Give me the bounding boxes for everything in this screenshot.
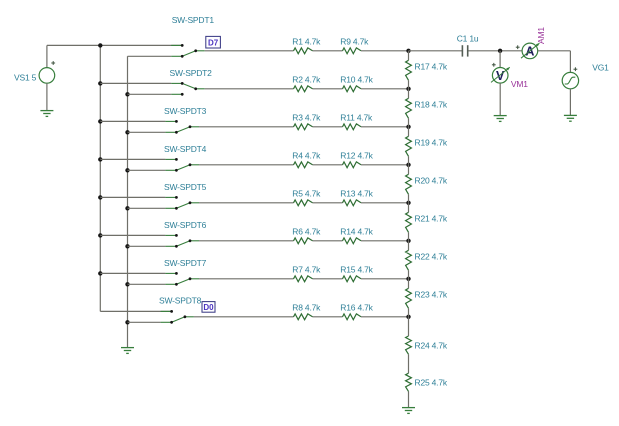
svg-text:SW-SPDT7: SW-SPDT7 xyxy=(164,258,207,268)
wire: ladder top node to C1 xyxy=(409,50,463,52)
digital state box D0 xyxy=(202,302,215,313)
wire: rail2 to SW-SPDT1 bottom throw xyxy=(128,55,172,57)
switch SW-SPDT5 xyxy=(165,196,199,210)
wire: ladder segment below R20 xyxy=(408,194,410,203)
resistor R12 xyxy=(343,162,362,168)
svg-text:D0: D0 xyxy=(203,303,214,312)
digital state box D7 xyxy=(206,36,221,48)
wire: R16 to summing ladder xyxy=(361,316,409,318)
wire: rail2 to SW-SPDT2 bottom throw xyxy=(128,93,172,95)
wire: R3 to R11 xyxy=(313,126,343,128)
node: rail1 junction row 1 xyxy=(98,43,102,47)
wire: R4 to R12 xyxy=(313,164,343,166)
wire: SW-SPDT3 pole to R3 xyxy=(199,126,294,128)
svg-text:AM1: AM1 xyxy=(536,27,546,44)
wire: ladder segment above R18 xyxy=(408,89,410,99)
svg-text:SW-SPDT2: SW-SPDT2 xyxy=(170,68,213,78)
wire: ladder segment below R22 xyxy=(408,270,410,279)
resistor R8 xyxy=(294,314,313,320)
svg-text:SW-SPDT3: SW-SPDT3 xyxy=(164,106,207,116)
wire: SW-SPDT2 pole to R2 xyxy=(205,88,294,90)
resistor R17 xyxy=(406,60,412,80)
wire: R6 to R14 xyxy=(313,240,343,242)
svg-text:R11 4.7k: R11 4.7k xyxy=(340,113,373,123)
wire: rail1 to SW-SPDT2 top throw xyxy=(100,82,171,84)
wire: SW-SPDT7 pole to R7 xyxy=(199,278,294,280)
resistor R7 xyxy=(294,276,313,282)
svg-text:R4 4.7k: R4 4.7k xyxy=(292,151,321,161)
wire: rail 2 (ground bus vertical) xyxy=(127,56,129,347)
node: rail1 junction row 2 xyxy=(98,81,102,85)
wire: ladder segment between R24 and R25 xyxy=(408,354,410,373)
resistor R4 xyxy=(294,162,313,168)
svg-text:SW-SPDT6: SW-SPDT6 xyxy=(164,220,207,230)
resistor R5 xyxy=(294,200,313,206)
node: rail2 junction row 4 xyxy=(125,168,129,172)
wire: rail1 to SW-SPDT7 top throw xyxy=(100,272,165,274)
svg-text:R2 4.7k: R2 4.7k xyxy=(292,75,321,85)
svg-text:R3 4.7k: R3 4.7k xyxy=(292,113,321,123)
VS1 plus polarity mark xyxy=(51,61,55,65)
ammeter AM1 xyxy=(521,43,539,59)
svg-text:C1 1u: C1 1u xyxy=(457,34,479,44)
node: rail1 junction row 6 xyxy=(98,233,102,237)
svg-text:R7 4.7k: R7 4.7k xyxy=(292,265,321,275)
resistor R22 xyxy=(406,250,412,270)
wire: top bus from VS1 to SW-SPDT1 top throw xyxy=(47,44,182,46)
node: ladder junction row 2 xyxy=(406,87,410,91)
resistor R9 xyxy=(343,48,362,54)
wire: ladder segment below R18 xyxy=(408,118,410,127)
svg-text:R20 4.7k: R20 4.7k xyxy=(415,176,448,186)
resistor R23 xyxy=(406,288,412,308)
wire: rail1 to SW-SPDT6 top throw xyxy=(100,234,165,236)
wire: R5 to R13 xyxy=(313,202,343,204)
wire: SW-SPDT4 pole to R4 xyxy=(199,164,294,166)
node: rail2 junction row 3 xyxy=(125,130,129,134)
voltage source VS1 xyxy=(39,68,55,84)
node: ladder junction row 3 xyxy=(406,125,410,129)
svg-text:R21 4.7k: R21 4.7k xyxy=(415,214,448,224)
switch SW-SPDT7 xyxy=(165,272,199,286)
wire: ladder segment below R21 xyxy=(408,232,410,241)
svg-text:SW-SPDT5: SW-SPDT5 xyxy=(164,182,207,192)
wire: VS1 top lead up to bus corner xyxy=(46,45,48,67)
wire: ladder segment below R23 xyxy=(408,308,410,317)
resistor R10 xyxy=(343,86,362,92)
svg-text:SW-SPDT8: SW-SPDT8 xyxy=(159,295,202,305)
wire: rail2 to SW-SPDT3 bottom throw xyxy=(128,131,166,133)
node: ladder junction row 8 xyxy=(406,315,410,319)
node: ladder junction row 5 xyxy=(406,201,410,205)
node: rail1 junction row 3 xyxy=(98,119,102,123)
resistor R21 xyxy=(406,212,412,232)
ground below VM1 xyxy=(494,116,507,122)
svg-text:R1 4.7k: R1 4.7k xyxy=(292,37,321,47)
resistor R13 xyxy=(343,200,362,206)
wire: VG1 to ground xyxy=(569,89,571,115)
node: rail2 junction row 6 xyxy=(125,244,129,248)
svg-text:R10 4.7k: R10 4.7k xyxy=(340,75,373,85)
wire: R13 to summing ladder xyxy=(361,202,409,204)
svg-text:R17 4.7k: R17 4.7k xyxy=(415,62,448,72)
VG1 plus polarity mark xyxy=(574,67,578,71)
switch SW-SPDT3 xyxy=(165,120,199,134)
wire: R11 to summing ladder xyxy=(361,126,409,128)
wire: ladder segment above R22 xyxy=(408,241,410,251)
resistor R24 xyxy=(406,336,412,354)
svg-text:R25 4.7k: R25 4.7k xyxy=(415,378,448,388)
wire: R2 to R10 xyxy=(313,88,343,90)
resistor R11 xyxy=(343,124,362,130)
AM1 plus polarity mark xyxy=(516,45,520,49)
svg-text:R24 4.7k: R24 4.7k xyxy=(415,340,448,350)
wire: VS1 bottom lead to ground xyxy=(46,83,48,110)
ground below VG1 xyxy=(564,115,577,121)
wire: R7 to R15 xyxy=(313,278,343,280)
wire: rail1 to SW-SPDT5 top throw xyxy=(100,196,165,198)
svg-text:R23 4.7k: R23 4.7k xyxy=(415,290,448,300)
wire: SW-SPDT6 pole to R6 xyxy=(199,240,294,242)
svg-text:SW-SPDT1: SW-SPDT1 xyxy=(172,15,215,25)
wire: tap down to VM1 xyxy=(499,51,501,68)
svg-text:R15 4.7k: R15 4.7k xyxy=(340,265,373,275)
resistor R3 xyxy=(294,124,313,130)
svg-text:R19 4.7k: R19 4.7k xyxy=(415,138,448,148)
node: rail2 junction row 8 xyxy=(125,320,129,324)
wire: R12 to summing ladder xyxy=(361,164,409,166)
switch SW-SPDT4 xyxy=(165,158,199,172)
resistor R6 xyxy=(294,238,313,244)
wire: corner down to VG1 xyxy=(569,51,571,73)
wire: ladder bottom lead to ground xyxy=(408,391,410,407)
capacitor C1 xyxy=(462,45,467,56)
node: rail2 junction row 5 xyxy=(125,206,129,210)
svg-text:SW-SPDT4: SW-SPDT4 xyxy=(164,144,207,154)
svg-text:R18 4.7k: R18 4.7k xyxy=(415,100,448,110)
resistor R2 xyxy=(294,86,313,92)
wire: VM1 to ground xyxy=(499,83,501,115)
wire: SW-SPDT5 pole to R5 xyxy=(199,202,294,204)
wire: R10 to summing ladder xyxy=(361,88,409,90)
node: rail2 junction row 7 xyxy=(125,282,129,286)
wire: rail1 to SW-SPDT3 top throw xyxy=(100,120,165,122)
svg-text:R14 4.7k: R14 4.7k xyxy=(340,227,373,237)
wire: ladder segment above R24 xyxy=(408,317,410,336)
wire: SW-SPDT1 pole to R1 xyxy=(205,50,294,52)
wire: C1 to ammeter xyxy=(469,50,523,52)
ground below rail 2 xyxy=(121,348,134,354)
wire: rail1 to SW-SPDT4 top throw xyxy=(100,158,165,160)
wire: SW-SPDT8 pole to R8 xyxy=(194,316,294,318)
node: ladder junction row 6 xyxy=(406,239,410,243)
svg-text:R5 4.7k: R5 4.7k xyxy=(292,189,321,199)
wire: rail2 to SW-SPDT5 bottom throw xyxy=(128,207,166,209)
svg-text:R6 4.7k: R6 4.7k xyxy=(292,227,321,237)
wire: ladder segment above R19 xyxy=(408,127,410,137)
switch SW-SPDT8 xyxy=(161,310,194,324)
switch SW-SPDT6 xyxy=(165,234,199,248)
node: ladder junction row 7 xyxy=(406,277,410,281)
resistor R1 xyxy=(294,48,313,54)
svg-text:R12 4.7k: R12 4.7k xyxy=(340,151,373,161)
svg-text:R8 4.7k: R8 4.7k xyxy=(292,303,321,313)
svg-text:D7: D7 xyxy=(208,39,219,48)
resistor R18 xyxy=(406,98,412,118)
voltmeter VM1 xyxy=(491,67,510,83)
wire: rail 1 (VS1 bus vertical) xyxy=(99,45,101,311)
svg-text:VG1: VG1 xyxy=(592,63,609,73)
wire: ladder segment above R20 xyxy=(408,165,410,175)
wire: ammeter to VG1 corner xyxy=(538,50,571,52)
wire: rail2 to SW-SPDT6 bottom throw xyxy=(128,245,166,247)
wire: R9 to summing ladder xyxy=(361,50,409,52)
svg-text:R9 4.7k: R9 4.7k xyxy=(340,37,369,47)
node: ladder junction row 4 xyxy=(406,163,410,167)
switch SW-SPDT1 xyxy=(171,44,205,58)
wire: ladder segment above R17 xyxy=(408,51,410,61)
node: rail1 junction row 7 xyxy=(98,271,102,275)
switch SW-SPDT2 xyxy=(171,82,205,96)
VM1 plus polarity mark xyxy=(492,63,496,67)
wire: ladder segment above R23 xyxy=(408,279,410,289)
wire: rail2 to SW-SPDT4 bottom throw xyxy=(128,169,166,171)
generator VG1 xyxy=(562,72,578,88)
resistor R16 xyxy=(343,314,362,320)
node: rail1 junction row 4 xyxy=(98,157,102,161)
svg-text:VM1: VM1 xyxy=(511,79,528,89)
wire: ladder segment below R19 xyxy=(408,156,410,165)
ground below ladder xyxy=(402,408,415,414)
resistor R20 xyxy=(406,174,412,194)
wire: ladder segment below R17 xyxy=(408,80,410,89)
wire: ladder segment above R21 xyxy=(408,203,410,213)
ground below VS1 xyxy=(40,111,53,117)
wire: R1 to R9 xyxy=(313,50,343,52)
wire: R14 to summing ladder xyxy=(361,240,409,242)
wire: rail2 to SW-SPDT8 bottom throw xyxy=(128,321,161,323)
wire: rail2 to SW-SPDT7 bottom throw xyxy=(128,283,166,285)
resistor R19 xyxy=(406,136,412,156)
node: ladder junction row 1 xyxy=(406,49,410,53)
svg-text:R22 4.7k: R22 4.7k xyxy=(415,252,448,262)
svg-text:R16 4.7k: R16 4.7k xyxy=(340,303,373,313)
svg-text:V: V xyxy=(496,69,505,83)
wire: rail 1 bottom elbow to SW-SPDT8 top throw xyxy=(100,310,171,312)
resistor R25 xyxy=(406,373,412,391)
node: voltmeter tap junction xyxy=(498,49,502,53)
svg-text:R13 4.7k: R13 4.7k xyxy=(340,189,373,199)
resistor R15 xyxy=(343,276,362,282)
svg-text:VS1 5: VS1 5 xyxy=(14,73,37,83)
node: rail2 junction row 2 xyxy=(125,92,129,96)
wire: R8 to R16 xyxy=(313,316,343,318)
node: rail1 junction row 5 xyxy=(98,195,102,199)
wire: R15 to summing ladder xyxy=(361,278,409,280)
resistor R14 xyxy=(343,238,362,244)
